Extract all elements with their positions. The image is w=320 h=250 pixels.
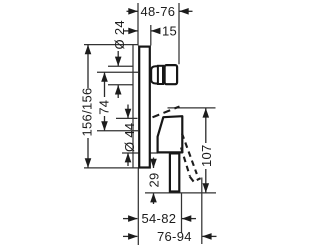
wire: extension line lever closed tip (x=181.5) [181, 193, 183, 234]
svg-text:74: 74 [96, 100, 111, 115]
svg-text:Ø 44: Ø 44 [122, 123, 137, 152]
svg-text:76-94: 76-94 [157, 229, 192, 244]
dimension 76-94 [123, 229, 217, 244]
svg-text:29: 29 [147, 172, 162, 187]
dashed lever outer edge (open position) [182, 134, 197, 175]
svg-text:48-76: 48-76 [141, 4, 176, 19]
handle body (closed) [158, 116, 183, 152]
wire: extension line plate-left top (x=138) [137, 3, 139, 46]
lever rod (closed, pointing down) [170, 153, 179, 191]
wire: extension line below plate (x=138.3) [137, 169, 139, 246]
dimension Ø44 [116, 105, 158, 167]
dimension 48-76 [127, 4, 193, 19]
wire: extension line spout tip (x=179) [178, 3, 180, 64]
spout outer body [165, 65, 178, 84]
dimension 15 [123, 24, 177, 39]
wire: wall line left of plate [132, 45, 134, 168]
dimension 156/156 [80, 45, 151, 168]
dashed handle top edge (open position) [153, 107, 180, 118]
svg-text:156/156: 156/156 [80, 87, 95, 136]
svg-text:54-82: 54-82 [142, 211, 177, 226]
dashed lever tip (open position) [190, 176, 201, 181]
spout pipe ring [158, 66, 163, 84]
dimension 74 [96, 72, 138, 131]
wall plate (side view) [139, 47, 150, 168]
wire: extension line plate-right top (x=150.8) [150, 25, 152, 46]
wire: extension line lever open tip (x=201.3) [201, 178, 203, 245]
dimension Ø24 [108, 20, 134, 98]
dashed lever inner edge (open position) [181, 148, 190, 177]
spout collar [151, 66, 158, 83]
svg-text:Ø 24: Ø 24 [112, 20, 127, 49]
dimension 29 [147, 158, 162, 205]
svg-text:107: 107 [199, 144, 214, 167]
dimension 54-82 [123, 211, 196, 226]
dimension 107 [145, 108, 216, 193]
svg-text:15: 15 [162, 24, 177, 39]
